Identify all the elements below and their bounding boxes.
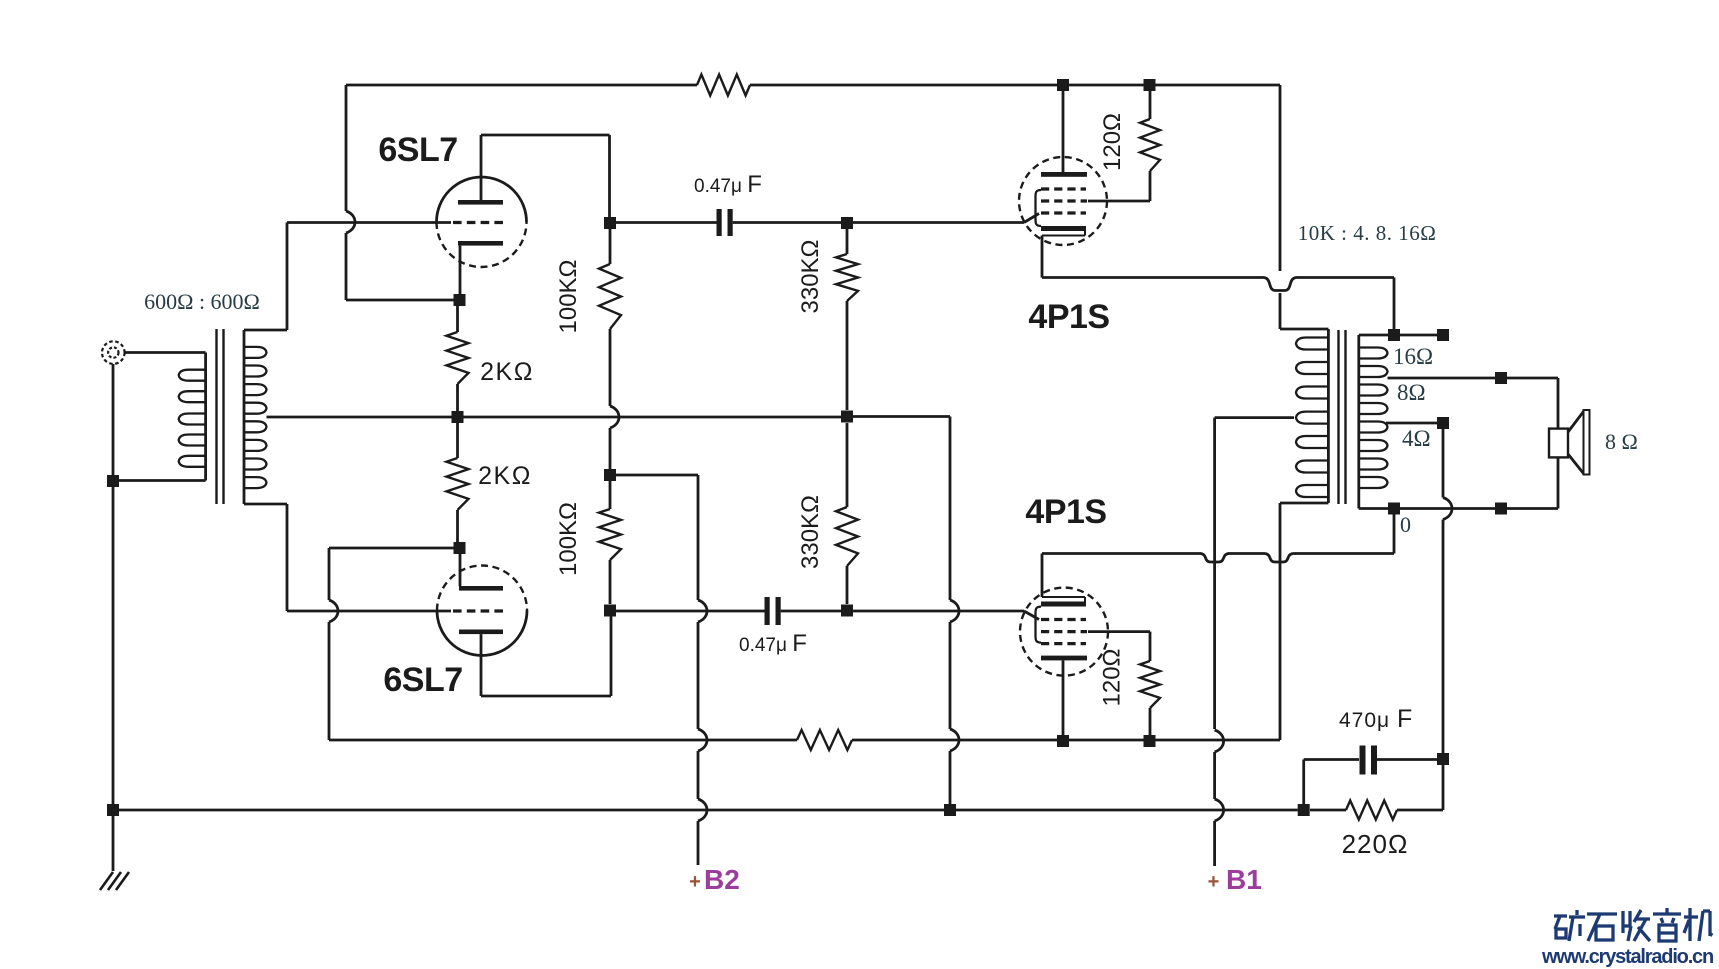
svg-text:100KΩ: 100KΩ xyxy=(555,502,582,576)
svg-text:B1: B1 xyxy=(1226,864,1262,895)
svg-text:4Ω: 4Ω xyxy=(1402,426,1431,451)
svg-text:2KΩ: 2KΩ xyxy=(480,358,534,386)
svg-text:8Ω: 8Ω xyxy=(1397,380,1426,405)
svg-text:8 Ω: 8 Ω xyxy=(1605,429,1638,454)
svg-text:600Ω : 600Ω: 600Ω : 600Ω xyxy=(144,289,260,314)
svg-text:120Ω: 120Ω xyxy=(1099,649,1126,707)
svg-text:16Ω: 16Ω xyxy=(1393,344,1433,369)
svg-text:+: + xyxy=(689,871,701,893)
svg-text:220Ω: 220Ω xyxy=(1342,829,1409,859)
svg-text:330KΩ: 330KΩ xyxy=(797,495,824,569)
svg-text:330KΩ: 330KΩ xyxy=(797,240,824,314)
svg-text:B2: B2 xyxy=(704,864,740,895)
svg-text:0: 0 xyxy=(1400,512,1411,537)
svg-text:4P1S: 4P1S xyxy=(1028,298,1109,336)
svg-text:www.crystalradio.cn: www.crystalradio.cn xyxy=(1541,946,1713,968)
svg-text:0.47μ F: 0.47μ F xyxy=(694,171,762,198)
svg-text:100KΩ: 100KΩ xyxy=(555,260,582,334)
svg-text:2KΩ: 2KΩ xyxy=(478,462,532,490)
svg-text:470μ F: 470μ F xyxy=(1339,705,1413,733)
svg-text:10K : 4. 8. 16Ω: 10K : 4. 8. 16Ω xyxy=(1298,221,1437,245)
svg-text:+: + xyxy=(1208,871,1220,893)
svg-text:6SL7: 6SL7 xyxy=(378,131,457,169)
svg-text:120Ω: 120Ω xyxy=(1099,113,1126,171)
svg-text:0.47μ F: 0.47μ F xyxy=(739,630,807,657)
svg-text:6SL7: 6SL7 xyxy=(383,661,462,699)
svg-text:4P1S: 4P1S xyxy=(1025,493,1106,531)
